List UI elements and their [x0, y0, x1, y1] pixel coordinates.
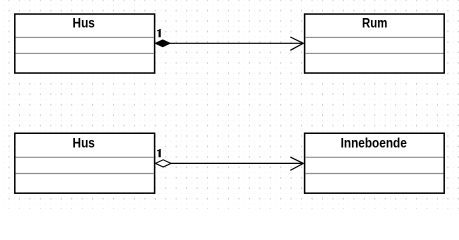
open aggregation diamond at Hus — [155, 160, 171, 167]
svg-text:Rum: Rum — [362, 15, 387, 31]
composition association line Hus-Rum — [170, 42, 304, 44]
divider line (Hus top, attributes compartment) — [16, 36, 154, 38]
filled composition diamond at Hus — [155, 40, 170, 47]
divider line (Hus top, operations compartment) — [16, 52, 154, 54]
open arrowhead at Inneboende — [290, 157, 303, 170]
aggregation association line Hus-Inneboende — [171, 162, 304, 164]
multiplicity label 1 (bottom association) — [157, 149, 161, 157]
svg-text:Hus: Hus — [73, 135, 95, 151]
divider line (Hus bottom, attributes compartment) — [16, 156, 154, 158]
divider line (Rum, operations compartment) — [305, 52, 443, 54]
divider line (Hus bottom, operations compartment) — [16, 173, 154, 175]
class box Inneboende (bottom right) — [305, 133, 445, 193]
open arrowhead at Rum — [290, 37, 303, 50]
svg-text:Inneboende: Inneboende — [341, 136, 407, 151]
divider line (Inneboende, operations compartment) — [305, 173, 443, 175]
divider line (Inneboende, attributes compartment) — [305, 156, 443, 158]
svg-text:Hus: Hus — [73, 15, 95, 31]
class box Hus (bottom left) — [15, 133, 155, 193]
class box Hus (top left) — [15, 14, 155, 73]
divider line (Rum, attributes compartment) — [305, 36, 443, 38]
class box Rum (top right) — [305, 14, 445, 73]
multiplicity label 1 (top association) — [157, 29, 161, 37]
